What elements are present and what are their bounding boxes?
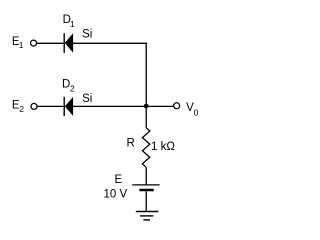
- node E2 label: [12, 100, 24, 115]
- wire D2 to V0 terminal: [73, 105, 174, 107]
- node V0 label: [186, 102, 199, 117]
- svg-text:2: 2: [19, 104, 24, 114]
- svg-text:1: 1: [70, 19, 75, 29]
- node E1 label: [12, 36, 24, 50]
- wire D1 to corner: [73, 42, 147, 44]
- wire corner down to junction: [145, 43, 147, 107]
- battery E: [132, 185, 159, 190]
- svg-text:10 V: 10 V: [104, 189, 128, 201]
- svg-text:1: 1: [19, 40, 24, 50]
- resistor R: [142, 128, 149, 168]
- diode D1 label: [63, 14, 75, 29]
- svg-text:1 kΩ: 1 kΩ: [151, 141, 175, 153]
- diode D2: [64, 97, 73, 116]
- ground: [136, 212, 159, 220]
- junction dot: [144, 104, 149, 109]
- svg-text:E: E: [115, 174, 123, 186]
- terminal E2: [31, 103, 37, 109]
- wire E1 to D1: [36, 42, 63, 44]
- terminal E1: [31, 40, 37, 46]
- svg-text:R: R: [127, 137, 135, 149]
- svg-text:0: 0: [194, 108, 199, 118]
- svg-text:2: 2: [70, 84, 75, 94]
- svg-text:Si: Si: [82, 93, 92, 105]
- wire E2 to D2: [37, 105, 64, 107]
- terminal V0: [174, 103, 180, 109]
- svg-text:Si: Si: [82, 29, 92, 41]
- wire battery to ground: [145, 191, 147, 211]
- wire junction down to resistor: [145, 106, 147, 127]
- diode D2 label: [62, 79, 75, 94]
- wire resistor to battery: [145, 167, 147, 184]
- diode D1: [64, 33, 73, 53]
